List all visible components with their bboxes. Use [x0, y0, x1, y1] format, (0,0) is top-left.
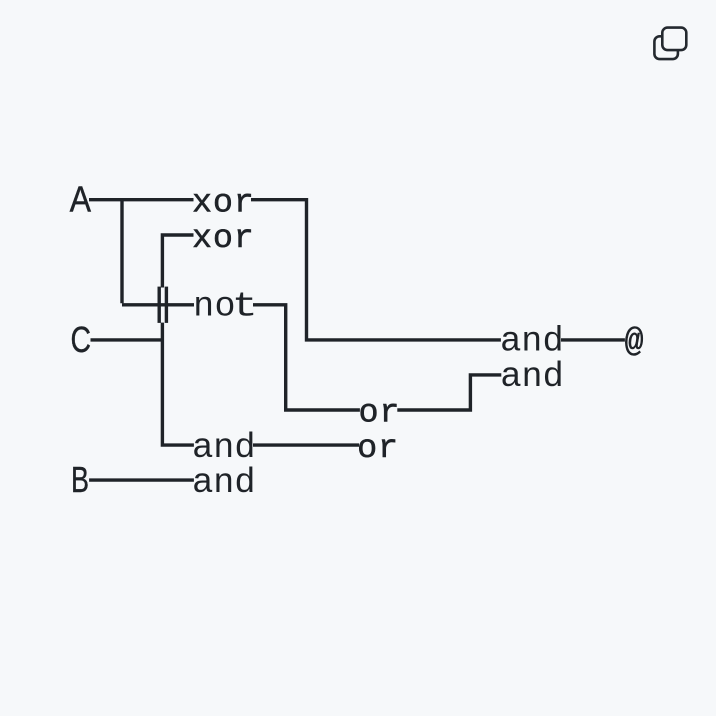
svg-text:A: A — [70, 179, 91, 220]
wire not U3 output down to or U7 — [253, 305, 360, 410]
wire and U6 output to or U8 — [253, 443, 359, 446]
wire branch A down to not U3 — [120, 200, 123, 304]
svg-text:and: and — [193, 461, 257, 500]
wire A to xor U1 — [89, 198, 194, 201]
wire not U3 input from A branch — [122, 303, 194, 306]
wire B to and U9 — [89, 478, 194, 481]
svg-text:@: @ — [625, 323, 644, 361]
svg-text:not: not — [194, 285, 258, 327]
copy icon — [654, 28, 686, 59]
svg-text:and: and — [193, 426, 257, 465]
wire C junction down to and U6 — [162, 323, 194, 445]
wire and U4 output to output node — [561, 338, 625, 341]
svg-text:and: and — [501, 355, 565, 394]
svg-text:C: C — [71, 319, 92, 360]
svg-text:or: or — [359, 394, 401, 432]
svg-text:xor: xor — [192, 184, 255, 222]
bridge crossover right bar — [165, 287, 168, 323]
svg-text:xor: xor — [192, 220, 255, 258]
wire C to junction — [91, 338, 163, 341]
bridge crossover left bar — [157, 287, 160, 323]
svg-text:B: B — [71, 459, 89, 500]
svg-text:or: or — [357, 430, 399, 468]
svg-text:and: and — [501, 319, 565, 358]
wire or U7 output up to and U5 — [397, 375, 501, 410]
wire C branch up to xor U2 — [162, 235, 193, 288]
wire xor U1 output to and U4 — [251, 200, 501, 340]
